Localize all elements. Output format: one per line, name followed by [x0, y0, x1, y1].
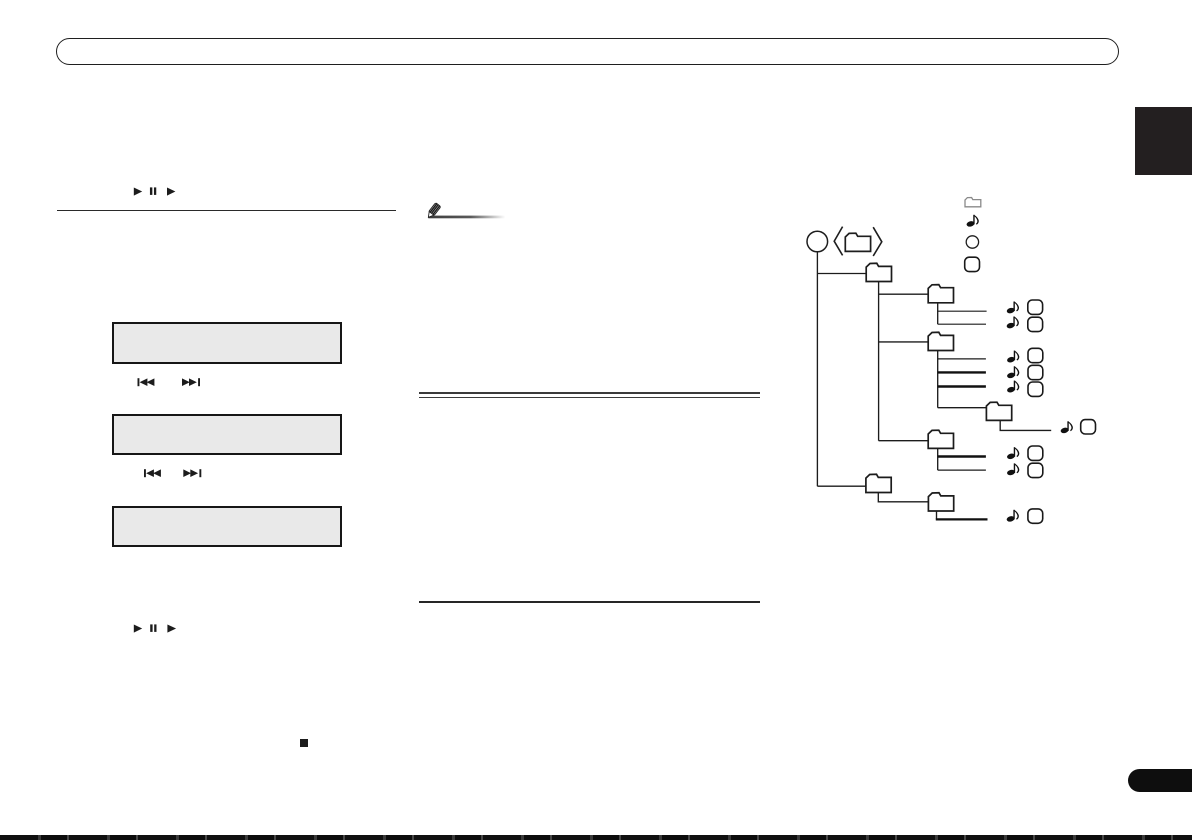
folder E stem wire: [936, 511, 938, 520]
display box 2: [112, 414, 342, 455]
page number pill (bottom right): [1128, 769, 1192, 792]
legend folder: [965, 198, 981, 207]
folder D (level 3): [986, 402, 1011, 420]
stop square: [300, 739, 308, 748]
root trunk wire: [816, 252, 818, 486]
prev next icons row 2: [140, 466, 210, 480]
wire to folder 2: [817, 485, 866, 487]
wire to folder 1: [817, 273, 866, 275]
prev next icons row 1: [134, 375, 204, 389]
folder 2 (level 1): [866, 474, 891, 492]
folder 1 (level 1): [866, 263, 891, 281]
file wire E1 (thick): [936, 518, 988, 520]
file box C2: [1028, 463, 1043, 477]
legend music note: [966, 215, 979, 228]
bottom scan edge band: [0, 835, 1192, 840]
file box A1: [1028, 300, 1043, 314]
root folder in brackets: [845, 233, 870, 251]
display box 1: [112, 322, 342, 364]
thin rule (middle column lower): [419, 601, 760, 602]
heading double rule thin line (middle column): [419, 397, 760, 398]
section tab (right edge black block): [1135, 107, 1192, 175]
folder 2 stem wire: [878, 493, 928, 502]
legend file box: [965, 257, 980, 271]
play pause play icons row 1: [130, 185, 182, 198]
file box B2: [1028, 365, 1043, 379]
root circle: [807, 231, 828, 252]
file wire B3 (thick): [938, 385, 986, 387]
file box E1: [1028, 509, 1043, 523]
file box A2: [1028, 317, 1043, 331]
left angle bracket: [834, 227, 842, 256]
note B3: [1006, 381, 1019, 394]
file wire C1 (thick): [938, 455, 986, 457]
play pause play icons row 2: [130, 622, 182, 635]
folder C (level 2): [928, 430, 953, 448]
file box B3: [1028, 382, 1043, 396]
file wire B1: [938, 358, 986, 360]
folder A stem wire: [937, 303, 939, 324]
heading double rule thick line (middle column): [419, 392, 760, 395]
file box D1: [1081, 420, 1096, 434]
file wire B2 (thick): [938, 371, 986, 373]
folder C stem wire: [937, 448, 939, 470]
folder D stem wire: [1000, 420, 1051, 430]
note E1: [1006, 510, 1019, 523]
display box 3: [112, 506, 342, 547]
folder E (level 2): [928, 493, 953, 511]
wire to folder D (level 3): [938, 407, 987, 409]
file box C1: [1028, 446, 1043, 460]
file wire C2: [938, 469, 986, 471]
legend circle: [966, 236, 978, 248]
note B2: [1006, 366, 1019, 379]
wire to folder B: [879, 341, 929, 343]
folder tree diagram: [780, 185, 1192, 535]
file box B1: [1028, 348, 1043, 362]
rule under play icons: [57, 210, 396, 211]
file wire A2: [938, 323, 986, 325]
folder A (level 2): [928, 285, 953, 303]
note (pencil) marker: [420, 196, 520, 222]
note A2: [1006, 316, 1019, 329]
file wire A1: [938, 310, 987, 312]
header rounded bar: [56, 38, 1119, 65]
folder B stem wire: [937, 351, 939, 408]
note C2: [1006, 463, 1019, 476]
note A1: [1006, 301, 1019, 314]
right angle bracket: [873, 227, 882, 256]
wire to folder A: [879, 293, 929, 295]
note C1: [1006, 447, 1019, 460]
note B1: [1006, 351, 1019, 364]
wire to folder C: [879, 440, 929, 442]
folder 1 stem wire: [878, 282, 880, 441]
folder B (level 2): [928, 332, 953, 350]
note D1: [1060, 421, 1073, 434]
